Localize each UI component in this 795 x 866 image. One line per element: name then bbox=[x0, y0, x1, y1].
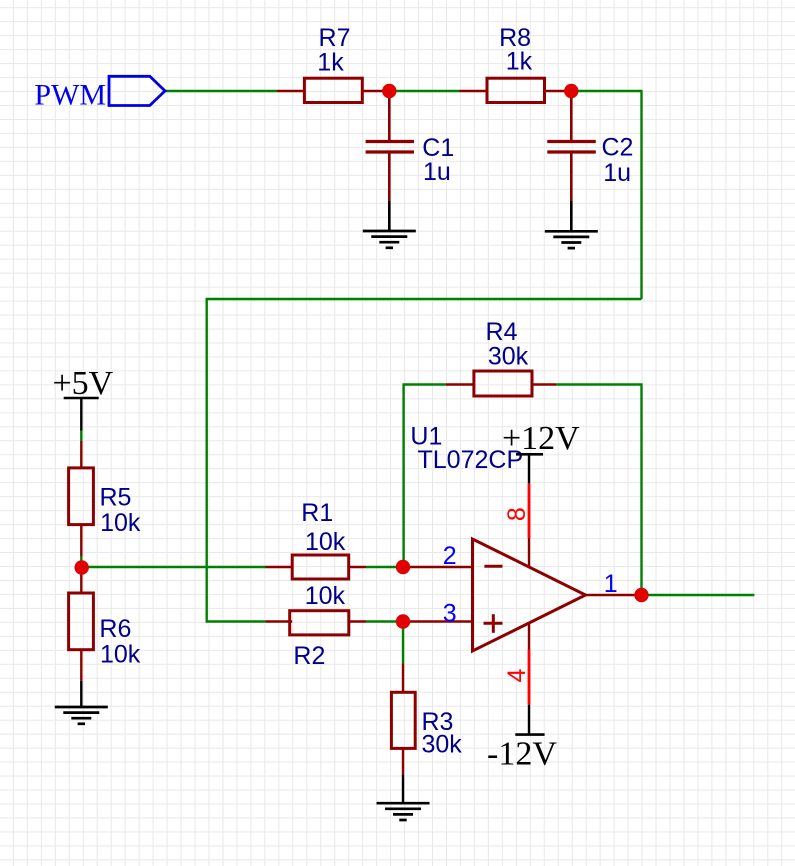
ground under C1 bbox=[363, 231, 416, 248]
wire +5V black segment bbox=[80, 398, 82, 431]
svg-text:R1: R1 bbox=[301, 499, 333, 527]
capacitor C1 bbox=[366, 134, 455, 186]
wire node C to R6 bbox=[80, 562, 82, 593]
power +5V bbox=[53, 365, 114, 402]
svg-text:10k: 10k bbox=[305, 528, 346, 556]
svg-text:1k: 1k bbox=[506, 48, 533, 76]
wire C1 to ground bbox=[388, 201, 391, 231]
wire R3 bottom pin bbox=[402, 748, 404, 774]
svg-text:-12V: -12V bbox=[487, 736, 557, 773]
wire R5 bottom pin bbox=[80, 525, 82, 556]
wire node E down to R3 bbox=[402, 622, 404, 664]
wire node E to opamp pin3 bbox=[403, 620, 472, 622]
wire node C to R1 bbox=[82, 566, 266, 568]
wire R3 to ground bbox=[402, 775, 404, 804]
wire opamp pin8 dark segment bbox=[528, 538, 530, 567]
power +12V bbox=[502, 420, 580, 457]
wire node D to opamp pin2 bbox=[403, 566, 472, 568]
wire C2 bottom pin bbox=[570, 154, 573, 202]
svg-text:+5V: +5V bbox=[53, 365, 114, 402]
wire -12V black segment bbox=[528, 705, 530, 735]
capacitor C2 bbox=[547, 133, 633, 187]
svg-text:2: 2 bbox=[443, 542, 457, 570]
svg-text:1u: 1u bbox=[603, 159, 631, 187]
ground under C2 bbox=[545, 231, 598, 248]
junction node C bbox=[75, 560, 89, 574]
wire C2 to ground bbox=[570, 201, 573, 231]
wire R1 pin2 bbox=[349, 566, 366, 568]
svg-text:30k: 30k bbox=[488, 342, 529, 370]
wire R2 pin1 bbox=[266, 620, 293, 622]
wire C1 bottom pin bbox=[388, 154, 391, 202]
svg-text:10k: 10k bbox=[305, 582, 346, 610]
junction node D bbox=[396, 560, 410, 574]
svg-text:+12V: +12V bbox=[502, 420, 580, 457]
wire R8 pin2 to node B bbox=[545, 90, 572, 92]
junction node E bbox=[396, 614, 410, 628]
svg-text:PWM: PWM bbox=[34, 79, 106, 112]
wire +5V green segment bbox=[80, 431, 82, 442]
svg-text:R5: R5 bbox=[100, 484, 132, 512]
resistor R2 bbox=[290, 582, 349, 670]
power -12V bbox=[487, 735, 557, 773]
svg-text:30k: 30k bbox=[422, 731, 463, 759]
resistor R5 bbox=[69, 468, 141, 537]
svg-text:1u: 1u bbox=[423, 158, 451, 186]
resistor R3 bbox=[391, 692, 462, 758]
svg-text:C2: C2 bbox=[602, 133, 634, 161]
svg-text:R6: R6 bbox=[99, 615, 131, 643]
wire R7 pin1 bbox=[277, 90, 304, 92]
wire R4 pin2 bbox=[532, 383, 556, 385]
resistor R1 bbox=[292, 499, 349, 579]
svg-text:1: 1 bbox=[604, 570, 618, 598]
wire long feedback left and down to R2 row bbox=[207, 299, 642, 622]
port PWM bbox=[34, 76, 165, 111]
wire R4 pin1 bbox=[446, 383, 474, 385]
svg-text:3: 3 bbox=[443, 599, 457, 627]
wire output to right bbox=[642, 594, 755, 596]
wire opamp pin8 red segment bbox=[528, 483, 531, 538]
wire opamp pin4 dark segment bbox=[528, 624, 530, 650]
resistor R8 bbox=[487, 24, 545, 102]
wire R1 pin1 bbox=[266, 566, 293, 568]
wire R6 bottom pin bbox=[80, 650, 82, 681]
wire R8 pin1 bbox=[460, 90, 488, 92]
svg-text:R2: R2 bbox=[293, 642, 325, 670]
wire +12V black segment bbox=[528, 454, 530, 483]
svg-text:10k: 10k bbox=[100, 509, 141, 537]
wire node A to R8 bbox=[389, 90, 459, 92]
wire R3 top pin bbox=[402, 664, 404, 693]
wire C1 top pin bbox=[388, 91, 391, 140]
wire node B right and down to corner bbox=[571, 91, 641, 299]
wire R4 left green bbox=[404, 385, 446, 568]
wire R4 right green down to output node bbox=[556, 385, 641, 596]
wire R7 pin2 to node A bbox=[362, 90, 389, 92]
op-amp U1 bbox=[410, 422, 585, 651]
ground under R6 bbox=[55, 707, 108, 724]
ground under R3 bbox=[377, 803, 430, 820]
wire R5 top pin bbox=[80, 441, 82, 468]
junction node B bbox=[564, 84, 578, 98]
resistor R6 bbox=[69, 593, 141, 669]
junction node A bbox=[382, 84, 396, 98]
wire R2 to node E bbox=[366, 620, 403, 622]
svg-text:8: 8 bbox=[503, 507, 531, 521]
junction node F output bbox=[634, 588, 648, 602]
wire green bit above node C bbox=[80, 556, 82, 562]
svg-text:10k: 10k bbox=[100, 641, 141, 669]
svg-text:4: 4 bbox=[503, 668, 531, 682]
resistor R7 bbox=[304, 24, 362, 102]
wire opamp pin4 red segment bbox=[528, 650, 531, 705]
svg-text:1k: 1k bbox=[317, 49, 344, 77]
wire R2 pin2 bbox=[349, 620, 366, 622]
wire opamp output pin1 bbox=[586, 594, 642, 596]
wire PWM to R7 bbox=[165, 90, 277, 92]
wire R1 to node D bbox=[366, 566, 403, 568]
wire R6 to ground bbox=[80, 681, 82, 707]
resistor R4 bbox=[474, 318, 532, 396]
wire C2 top pin bbox=[570, 91, 573, 140]
